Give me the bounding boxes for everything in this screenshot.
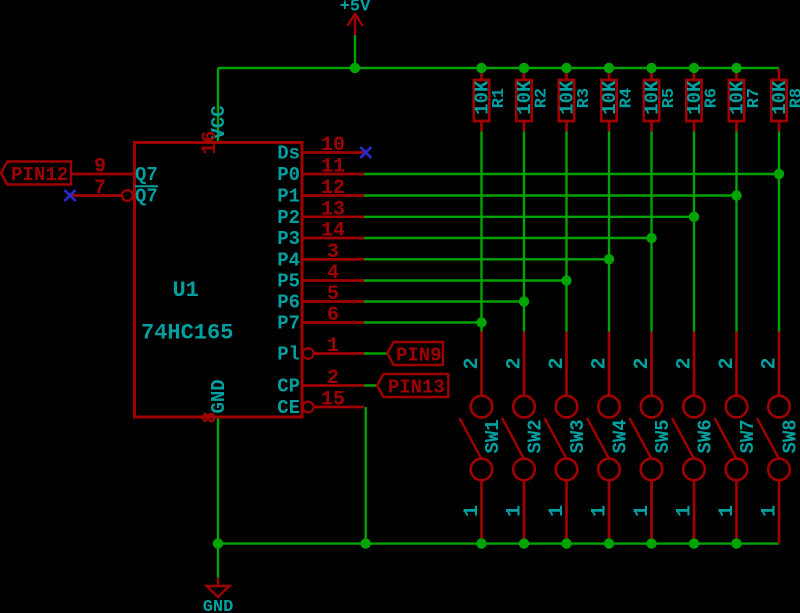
svg-text:2: 2 [716, 357, 739, 369]
pin 14 P3 [277, 220, 364, 251]
svg-text:4: 4 [327, 262, 339, 285]
pin 16 VCC [199, 105, 230, 154]
pin 2 CP [277, 367, 364, 398]
wire R6 to SW6 column [693, 131, 695, 332]
wire top bus +5V rail [218, 67, 779, 69]
svg-text:PIN9: PIN9 [396, 344, 442, 366]
pin 3 P4 [277, 241, 364, 272]
svg-text:74HC165: 74HC165 [141, 321, 233, 346]
svg-text:SW8: SW8 [780, 419, 800, 453]
svg-text:16: 16 [199, 130, 222, 154]
svg-text:R5: R5 [660, 88, 679, 108]
pin 13 P2 [277, 198, 364, 229]
svg-text:SW6: SW6 [695, 419, 717, 453]
transistor SW4 switch [587, 332, 632, 540]
wire P2 net [364, 216, 694, 218]
node junction P7 column [476, 317, 486, 327]
svg-text:2: 2 [546, 357, 569, 369]
node junction top R2 [519, 63, 529, 73]
svg-text:P5: P5 [277, 271, 300, 293]
svg-text:R2: R2 [533, 88, 552, 108]
svg-text:12: 12 [321, 177, 345, 200]
wire P3 net [364, 237, 652, 239]
node junction bus SW2 [519, 538, 529, 548]
wire P6 net [364, 300, 524, 302]
svg-text:P0: P0 [277, 164, 300, 186]
svg-text:P4: P4 [277, 250, 300, 272]
svg-text:10: 10 [321, 134, 345, 157]
svg-text:Q7: Q7 [135, 164, 158, 186]
svg-text:2: 2 [589, 357, 612, 369]
node junction P4 column [604, 254, 614, 264]
svg-text:GND: GND [208, 379, 230, 413]
svg-text:2: 2 [759, 357, 782, 369]
svg-text:2: 2 [631, 357, 654, 369]
node junction bus SW6 [689, 538, 699, 548]
svg-text:Ds: Ds [277, 143, 300, 165]
svg-text:1: 1 [631, 505, 654, 517]
resistor R8 10K [769, 69, 800, 132]
node junction top R1 [476, 63, 486, 73]
svg-text:SW2: SW2 [525, 419, 547, 453]
node junction CE on bus [361, 538, 371, 548]
svg-text:Q7: Q7 [135, 186, 158, 208]
svg-text:+5V: +5V [340, 0, 371, 17]
resistor R2 10K [514, 69, 551, 132]
svg-text:3: 3 [327, 241, 339, 264]
wire PL to PIN9 [364, 352, 387, 354]
wire GND vertical from U1 pin 8 [217, 417, 219, 578]
svg-text:1: 1 [546, 505, 569, 517]
wire R3 to SW3 column [565, 131, 567, 332]
svg-text:PIN12: PIN12 [11, 164, 68, 186]
transistor SW5 switch [630, 332, 675, 540]
svg-text:R8: R8 [788, 88, 800, 108]
node junction top R5 [646, 63, 656, 73]
wire R7 to SW7 column [735, 131, 737, 332]
node junction bus SW5 [646, 538, 656, 548]
transistor SW6 switch [672, 332, 717, 540]
transistor SW3 switch [545, 332, 590, 540]
pin 15 CE (inverted) [277, 389, 364, 420]
svg-text:R4: R4 [618, 88, 637, 108]
node junction top R4 [604, 63, 614, 73]
svg-text:11: 11 [321, 156, 345, 179]
svg-text:R7: R7 [745, 88, 764, 108]
wire R2 to SW2 column [523, 131, 525, 332]
pin 10 Ds [277, 134, 364, 165]
wire P5 net [364, 279, 567, 281]
svg-text:1: 1 [327, 335, 339, 358]
svg-text:R6: R6 [703, 88, 722, 108]
resistor R6 10K [684, 69, 721, 132]
svg-text:6: 6 [327, 304, 339, 327]
no-connect on Q7-bar pin [64, 190, 75, 201]
svg-text:14: 14 [321, 220, 345, 243]
wire +5V stem [354, 35, 356, 68]
svg-text:SW1: SW1 [482, 419, 504, 453]
svg-text:1: 1 [461, 505, 484, 517]
node junction top R7 [731, 63, 741, 73]
node +5V junction [350, 63, 360, 73]
node hierarchical label PIN13 [377, 374, 448, 398]
svg-text:9: 9 [94, 156, 106, 179]
svg-text:SW5: SW5 [652, 419, 674, 453]
svg-text:GND: GND [203, 598, 234, 613]
svg-text:P7: P7 [277, 313, 300, 335]
wire P7 net [364, 321, 482, 323]
wire R8 to SW8 column [778, 131, 780, 332]
wire P1 net [364, 194, 737, 196]
svg-text:SW7: SW7 [737, 419, 759, 453]
wire R1 to SW1 column [480, 131, 482, 332]
node junction bus SW1 [476, 538, 486, 548]
svg-text:8: 8 [200, 411, 223, 423]
svg-text:2: 2 [504, 357, 527, 369]
svg-text:U1: U1 [172, 278, 198, 303]
svg-text:SW4: SW4 [610, 419, 632, 453]
node hierarchical label PIN9 [387, 342, 443, 366]
wire P0 net [364, 173, 779, 175]
node junction P0 column [774, 169, 784, 179]
svg-text:7: 7 [94, 177, 106, 200]
wire CE to GND bus [365, 407, 367, 544]
svg-text:SW3: SW3 [567, 419, 589, 453]
svg-text:CP: CP [277, 376, 300, 398]
node junction P6 column [519, 296, 529, 306]
no-connect on Ds pin [360, 147, 371, 158]
svg-text:R3: R3 [575, 88, 594, 108]
resistor R4 10K [599, 69, 636, 132]
pin 1 PL (inverted) [277, 335, 364, 366]
svg-text:R1: R1 [490, 88, 509, 108]
resistor R3 10K [557, 69, 594, 132]
transistor SW2 switch [502, 332, 547, 540]
svg-text:13: 13 [321, 198, 345, 221]
wire CP to PIN13 [364, 384, 377, 386]
svg-text:P2: P2 [277, 207, 300, 229]
svg-text:PIN13: PIN13 [388, 376, 445, 398]
svg-text:1: 1 [504, 505, 527, 517]
node junction P5 column [561, 275, 571, 285]
node junction bus SW7 [731, 538, 741, 548]
node junction GND bus left [213, 538, 223, 548]
svg-text:2: 2 [674, 357, 697, 369]
pin 5 P6 [277, 283, 364, 314]
transistor SW7 switch [715, 332, 760, 540]
power +5V [340, 0, 371, 35]
pin 7 Q7-bar (inverted, no-connect) [70, 177, 158, 208]
op-amp U1 74HC165 body [135, 143, 303, 418]
node hierarchical label PIN12 [1, 162, 71, 186]
node junction top R3 [561, 63, 571, 73]
wire P4 net [364, 258, 609, 260]
node junction top R6 [689, 63, 699, 73]
pin 8 GND [200, 379, 231, 423]
resistor R5 10K [642, 69, 679, 132]
wire R5 to SW5 column [650, 131, 652, 332]
svg-text:1: 1 [674, 505, 697, 517]
svg-text:Pl: Pl [277, 344, 300, 366]
pin 4 P5 [277, 262, 364, 293]
svg-text:2: 2 [461, 357, 484, 369]
svg-text:2: 2 [327, 367, 339, 390]
svg-text:1: 1 [589, 505, 612, 517]
svg-text:1: 1 [759, 505, 782, 517]
svg-text:5: 5 [327, 283, 339, 306]
pin 6 P7 [277, 304, 364, 335]
wire bottom GND bus [218, 542, 779, 544]
svg-text:15: 15 [321, 389, 345, 412]
wire R4 to SW4 column [608, 131, 610, 332]
svg-text:P1: P1 [277, 186, 300, 208]
pin 11 P0 [277, 156, 364, 187]
node junction bus SW3 [561, 538, 571, 548]
transistor SW1 switch [460, 332, 505, 540]
svg-text:P6: P6 [277, 292, 300, 314]
node junction P2 column [689, 212, 699, 222]
resistor R7 10K [727, 69, 764, 132]
node junction bus SW4 [604, 538, 614, 548]
transistor SW8 switch [757, 332, 800, 544]
ground GND [203, 578, 234, 613]
pin 12 P1 [277, 177, 364, 208]
node junction P1 column [731, 190, 741, 200]
wire VCC vertical to U1 pin 16 [217, 68, 219, 143]
node junction P3 column [646, 233, 656, 243]
svg-text:CE: CE [277, 397, 300, 419]
pin 9 Q7 [71, 156, 158, 187]
svg-text:P3: P3 [277, 228, 300, 250]
svg-text:1: 1 [716, 505, 739, 517]
resistor R1 10K [472, 69, 509, 132]
